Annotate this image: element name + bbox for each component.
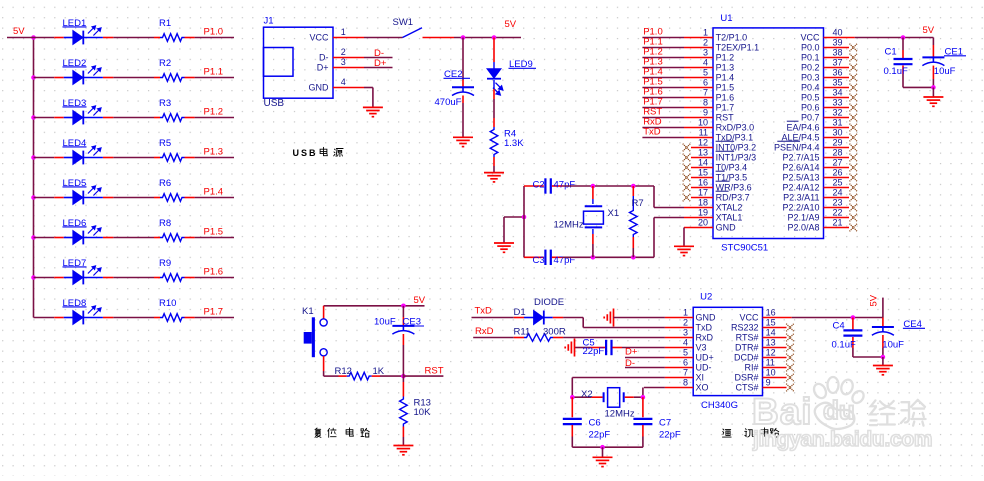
LED LED2 bbox=[54, 77, 64, 79]
no-connect U2 pin 11 bbox=[786, 364, 794, 372]
svg-text:P0.5: P0.5 bbox=[801, 93, 820, 103]
svg-text:4: 4 bbox=[703, 58, 708, 68]
svg-text:VCC: VCC bbox=[739, 313, 759, 323]
crystal X1 12MHz bbox=[592, 186, 594, 199]
wire crystal left rail bbox=[523, 186, 525, 257]
svg-text:Bai: Bai bbox=[752, 391, 813, 432]
wire R13 to ground bbox=[402, 437, 404, 445]
capacitor CE4 10uF bbox=[882, 318, 884, 327]
svg-text:32: 32 bbox=[833, 108, 843, 118]
wire ground to U2 pin1 bbox=[614, 317, 665, 319]
ground (crystal) bbox=[494, 243, 514, 252]
junction R7 top bbox=[631, 184, 636, 189]
svg-text:R10: R10 bbox=[159, 298, 176, 309]
junction crystal left rail bbox=[522, 215, 527, 220]
no-connect U1 pin 39 bbox=[850, 44, 858, 52]
svg-text:6: 6 bbox=[683, 358, 688, 368]
svg-text:5: 5 bbox=[683, 348, 688, 358]
wire 5V to CE2 bbox=[462, 38, 464, 81]
svg-text:P0.4: P0.4 bbox=[801, 83, 820, 93]
wire C5 to U2 V3 bbox=[622, 347, 665, 349]
svg-text:RD/P3.7: RD/P3.7 bbox=[716, 193, 750, 203]
svg-text:P1.3: P1.3 bbox=[204, 147, 224, 158]
wire R2 to P1.1 bbox=[195, 77, 234, 79]
svg-text:LED8: LED8 bbox=[63, 298, 87, 309]
wire 5V rail to LED8 bbox=[34, 317, 55, 319]
no-connect U1 pin 23 bbox=[850, 204, 858, 212]
wire net P1.4 to U1 pin 5 bbox=[642, 77, 684, 79]
svg-text:P0.1: P0.1 bbox=[801, 53, 820, 63]
label reset circuit bbox=[315, 428, 321, 438]
svg-text:X2: X2 bbox=[581, 389, 593, 400]
svg-text:5V: 5V bbox=[923, 25, 935, 36]
no-connect U2 pin 13 bbox=[786, 344, 794, 352]
svg-text:T2EX/P1.1: T2EX/P1.1 bbox=[716, 43, 760, 53]
svg-text:25: 25 bbox=[833, 178, 843, 188]
svg-text:28: 28 bbox=[833, 148, 843, 158]
no-connect U1 pin 32 bbox=[850, 114, 858, 122]
svg-text:D1: D1 bbox=[514, 307, 526, 318]
wire C2 to corner bbox=[563, 185, 655, 187]
LED LED4 bbox=[54, 157, 64, 159]
wire R9 to P1.6 bbox=[195, 277, 234, 279]
wire D1 to U2 TxD bbox=[563, 317, 583, 319]
svg-text:14: 14 bbox=[766, 328, 776, 338]
svg-text:XTAL2: XTAL2 bbox=[716, 203, 743, 213]
wire J1 pin4 to ground bbox=[364, 87, 373, 89]
capacitor C4 0.1uF bbox=[852, 318, 854, 330]
node D+ stub bbox=[364, 67, 393, 69]
svg-text:P0.3: P0.3 bbox=[801, 73, 820, 83]
junction C1 bbox=[901, 35, 906, 40]
wire LED8 to R10 bbox=[113, 317, 154, 319]
svg-text:17: 17 bbox=[698, 188, 708, 198]
svg-text:X1: X1 bbox=[608, 208, 620, 219]
svg-text:TxD: TxD bbox=[696, 323, 713, 333]
wire crystal ground drop bbox=[503, 217, 505, 243]
svg-text:39: 39 bbox=[833, 38, 843, 48]
wire LED9 to R4 bbox=[493, 99, 495, 118]
svg-text:4: 4 bbox=[341, 77, 346, 87]
svg-text:VCC: VCC bbox=[800, 33, 820, 43]
svg-text:16: 16 bbox=[698, 178, 708, 188]
wire crystal bottom rail bbox=[524, 256, 544, 258]
svg-text:12: 12 bbox=[698, 138, 708, 148]
svg-text:P2.2/A10: P2.2/A10 bbox=[782, 203, 819, 213]
svg-text:DIODE: DIODE bbox=[534, 297, 564, 308]
svg-text:37: 37 bbox=[833, 58, 843, 68]
svg-text:24: 24 bbox=[833, 188, 843, 198]
junction CE3 top bbox=[401, 304, 406, 309]
svg-text:RTS#: RTS# bbox=[736, 333, 759, 343]
wire net P1.3 to U1 pin 4 bbox=[642, 67, 684, 69]
wire LED3 to R3 bbox=[113, 117, 154, 119]
wire U2 XO to crystal bbox=[644, 387, 665, 389]
svg-text:P1.4: P1.4 bbox=[716, 73, 735, 83]
svg-text:C2: C2 bbox=[533, 180, 545, 191]
svg-text:13: 13 bbox=[698, 148, 708, 158]
svg-text:LED6: LED6 bbox=[63, 218, 87, 229]
svg-text:RxD: RxD bbox=[696, 333, 714, 343]
svg-text:jingyan.baidu.com: jingyan.baidu.com bbox=[752, 428, 932, 451]
LED LED5 bbox=[54, 197, 64, 199]
capacitor C7 22pF bbox=[642, 397, 644, 417]
svg-text:2: 2 bbox=[703, 38, 708, 48]
svg-text:EA/P4.6: EA/P4.6 bbox=[786, 123, 819, 133]
LED LED8 bbox=[54, 317, 64, 319]
svg-text:RxD/P3.0: RxD/P3.0 bbox=[716, 123, 755, 133]
LED LED3 bbox=[54, 117, 64, 119]
svg-text:CH340G: CH340G bbox=[701, 400, 738, 411]
svg-text:R2: R2 bbox=[159, 58, 171, 69]
svg-text:C6: C6 bbox=[589, 417, 601, 428]
no-connect U1 pin 35 bbox=[850, 84, 858, 92]
wire LED5 to R6 bbox=[113, 197, 154, 199]
svg-text:DTR#: DTR# bbox=[735, 343, 759, 353]
svg-text:1: 1 bbox=[703, 28, 708, 38]
ground (R4) bbox=[484, 173, 504, 182]
svg-text:33: 33 bbox=[833, 98, 843, 108]
wire 5V rail to LED2 bbox=[34, 77, 55, 79]
svg-text:35: 35 bbox=[833, 78, 843, 88]
svg-text:P2.5/A13: P2.5/A13 bbox=[782, 173, 819, 183]
svg-text:R11: R11 bbox=[514, 327, 531, 338]
node D- stub bbox=[364, 57, 393, 59]
no-connect U1 pin 31 bbox=[850, 124, 858, 132]
svg-text:12MHz: 12MHz bbox=[605, 408, 635, 419]
svg-text:3: 3 bbox=[341, 57, 346, 67]
capacitor C5 22pF bbox=[575, 347, 591, 349]
svg-text:D+: D+ bbox=[317, 63, 329, 73]
junction X2 left bbox=[570, 395, 575, 400]
svg-text:RS232: RS232 bbox=[731, 323, 759, 333]
wire 5V (reset) bbox=[324, 305, 425, 307]
svg-text:14: 14 bbox=[698, 158, 708, 168]
connector J1 (USB) bbox=[264, 27, 334, 98]
svg-text:RxD: RxD bbox=[475, 326, 494, 337]
wire R12 to RST node bbox=[380, 375, 403, 377]
svg-text:38: 38 bbox=[833, 48, 843, 58]
node D- stub (U2) bbox=[625, 367, 665, 369]
svg-text:16: 16 bbox=[766, 308, 776, 318]
junction on 5V rail bbox=[31, 115, 36, 120]
wire 5V rail to LED5 bbox=[34, 197, 55, 199]
svg-text:4: 4 bbox=[683, 338, 688, 348]
no-connect U2 pin 12 bbox=[786, 354, 794, 362]
svg-text:DSR#: DSR# bbox=[734, 373, 758, 383]
svg-text:D-: D- bbox=[625, 358, 635, 369]
junction ground (C1/CE1) bbox=[931, 85, 936, 90]
svg-text:3: 3 bbox=[683, 328, 688, 338]
junction CE2 branch bbox=[461, 35, 466, 40]
wire 5V rail to LED3 bbox=[34, 117, 55, 119]
no-connect U1 pin 30 bbox=[850, 134, 858, 142]
wire 5V riser bbox=[882, 298, 884, 318]
wire C3 to corner bbox=[563, 256, 655, 258]
svg-text:5V: 5V bbox=[13, 26, 25, 37]
svg-text:LED3: LED3 bbox=[63, 98, 87, 109]
svg-text:P0.2: P0.2 bbox=[801, 63, 820, 73]
svg-text:23: 23 bbox=[833, 198, 843, 208]
wire C6 to C7 bottom bbox=[572, 446, 643, 448]
watermark Baidu Jingyan bbox=[752, 377, 932, 451]
svg-text:9: 9 bbox=[766, 378, 771, 388]
svg-text:RST: RST bbox=[425, 366, 444, 377]
crystal X2 12MHz bbox=[572, 396, 591, 398]
LED LED7 bbox=[54, 277, 64, 279]
svg-text:USB: USB bbox=[264, 98, 285, 109]
no-connect U1 pin 26 bbox=[850, 174, 858, 182]
no-connect U1 pin 27 bbox=[850, 164, 858, 172]
svg-text:0.1uF: 0.1uF bbox=[832, 340, 856, 351]
svg-text:470uF: 470uF bbox=[435, 97, 462, 108]
resistor R5 bbox=[154, 157, 160, 159]
wire net P1.2 to U1 pin 3 bbox=[642, 57, 684, 59]
no-connect U1 pin 24 bbox=[850, 194, 858, 202]
svg-text:P2.7/A15: P2.7/A15 bbox=[782, 153, 819, 163]
resistor R2 bbox=[154, 77, 160, 79]
svg-text:R7: R7 bbox=[632, 198, 644, 209]
wire R10 to P1.7 bbox=[195, 317, 234, 319]
wire R1 to P1.0 bbox=[195, 37, 234, 39]
wire VCC to 5V bbox=[855, 37, 934, 39]
svg-text:R5: R5 bbox=[159, 138, 171, 149]
svg-text:B: B bbox=[309, 148, 316, 158]
svg-text:13: 13 bbox=[766, 338, 776, 348]
svg-text:1.3K: 1.3K bbox=[504, 138, 524, 149]
ground (C5, rotated) bbox=[565, 339, 574, 357]
wire 5V to LED9 bbox=[493, 38, 495, 63]
svg-text:R3: R3 bbox=[159, 98, 171, 109]
svg-text:10uF: 10uF bbox=[934, 66, 956, 77]
wire crystal top rail bbox=[524, 185, 544, 187]
svg-text:LED5: LED5 bbox=[63, 178, 87, 189]
svg-text:GND: GND bbox=[309, 83, 330, 93]
svg-text:2: 2 bbox=[341, 47, 346, 57]
svg-text:10: 10 bbox=[766, 368, 776, 378]
svg-text:LED1: LED1 bbox=[63, 18, 87, 29]
wire U2 XI to crystal bbox=[572, 377, 665, 379]
svg-text:R8: R8 bbox=[159, 218, 171, 229]
svg-text:C3: C3 bbox=[533, 255, 545, 266]
svg-text:P1.6: P1.6 bbox=[716, 93, 735, 103]
resistor R11 300R bbox=[514, 337, 524, 339]
svg-text:P1.5: P1.5 bbox=[716, 83, 735, 93]
no-connect U1 pin 34 bbox=[850, 94, 858, 102]
resistor R8 bbox=[154, 237, 160, 239]
wire LED6 to R8 bbox=[113, 237, 154, 239]
svg-text:P1.0: P1.0 bbox=[204, 27, 224, 38]
resistor R12 1K bbox=[339, 375, 347, 377]
svg-text:UD+: UD+ bbox=[696, 353, 714, 363]
svg-text:15: 15 bbox=[766, 318, 776, 328]
svg-text:P1.3: P1.3 bbox=[716, 63, 735, 73]
svg-text:LED4: LED4 bbox=[63, 138, 87, 149]
wire 5V rail vertical bbox=[33, 38, 35, 318]
svg-text:P2.6/A14: P2.6/A14 bbox=[782, 163, 819, 173]
wire R11 to U2 RxD bbox=[563, 337, 665, 339]
wire R5 to P1.3 bbox=[195, 157, 234, 159]
svg-text:P0.6: P0.6 bbox=[801, 103, 820, 113]
wire 5V rail to LED4 bbox=[34, 157, 55, 159]
capacitor CE3 10uF bbox=[402, 306, 404, 317]
resistor R10 bbox=[154, 317, 160, 319]
svg-text:LED2: LED2 bbox=[63, 58, 87, 69]
svg-text:XI: XI bbox=[696, 373, 705, 383]
wire RST stub bbox=[403, 375, 443, 377]
svg-text:R12: R12 bbox=[335, 366, 352, 377]
svg-text:P2.3/A11: P2.3/A11 bbox=[783, 193, 819, 203]
svg-text:12: 12 bbox=[766, 348, 776, 358]
svg-text:DCD#: DCD# bbox=[734, 353, 759, 363]
junction on 5V rail bbox=[31, 35, 36, 40]
svg-text:P1.4: P1.4 bbox=[204, 187, 224, 198]
svg-text:VCC: VCC bbox=[309, 33, 329, 43]
wire 5V rail to LED1 bbox=[7, 37, 54, 39]
svg-text:10: 10 bbox=[698, 118, 708, 128]
svg-text:5V: 5V bbox=[505, 19, 517, 30]
no-connect U1 pin 28 bbox=[850, 154, 858, 162]
wire net TxD to U1 pin 11 bbox=[642, 137, 684, 139]
wire LED7 to R9 bbox=[113, 277, 154, 279]
svg-text:22pF: 22pF bbox=[659, 430, 681, 441]
svg-text:P2.4/A12: P2.4/A12 bbox=[782, 183, 819, 193]
svg-text:TxD: TxD bbox=[475, 305, 493, 316]
svg-text:P1.5: P1.5 bbox=[204, 227, 224, 238]
wire ground stub (crystal) bbox=[504, 216, 524, 218]
junction X2 right bbox=[641, 395, 646, 400]
LED LED9 bbox=[487, 69, 503, 95]
svg-text:LED7: LED7 bbox=[63, 258, 87, 269]
no-connect U1 pin 15 bbox=[683, 174, 691, 182]
svg-text:20: 20 bbox=[698, 218, 708, 228]
no-connect U2 pin 14 bbox=[786, 334, 794, 342]
junction ground (X2) bbox=[600, 445, 605, 450]
wire U1 GND pin20 to ground bbox=[683, 228, 685, 247]
wire R3 to P1.2 bbox=[195, 117, 234, 119]
svg-text:11: 11 bbox=[699, 128, 708, 138]
no-connect U1 pin 12 bbox=[683, 144, 691, 152]
resistor R6 bbox=[154, 197, 160, 199]
resistor R13 10K bbox=[402, 376, 404, 382]
no-connect U1 pin 36 bbox=[850, 74, 858, 82]
svg-text:19: 19 bbox=[698, 208, 708, 218]
svg-text:29: 29 bbox=[833, 138, 843, 148]
svg-text:GND: GND bbox=[696, 313, 717, 323]
svg-text:31: 31 bbox=[833, 118, 843, 128]
svg-text:P0.0: P0.0 bbox=[801, 43, 820, 53]
wire net P1.1 to U1 pin 2 bbox=[642, 47, 684, 49]
svg-text:TxD: TxD bbox=[643, 127, 661, 138]
svg-text:SW1: SW1 bbox=[393, 17, 414, 28]
wire TxD to D1 bbox=[472, 317, 514, 319]
wire to ground bbox=[932, 87, 934, 96]
wire net RST to U1 pin 9 bbox=[642, 117, 684, 119]
svg-text:P2.1/A9: P2.1/A9 bbox=[787, 213, 819, 223]
no-connect U1 pin 16 bbox=[683, 184, 691, 192]
svg-text:du: du bbox=[823, 395, 855, 425]
svg-text:7: 7 bbox=[703, 88, 708, 98]
svg-text:12MHz: 12MHz bbox=[554, 220, 584, 231]
svg-text:21: 21 bbox=[833, 218, 843, 228]
svg-text:P1.2: P1.2 bbox=[716, 53, 735, 63]
svg-text:40: 40 bbox=[833, 28, 843, 38]
svg-text:18: 18 bbox=[698, 198, 708, 208]
label communication circuit bbox=[723, 429, 732, 437]
svg-text:R9: R9 bbox=[159, 258, 171, 269]
no-connect U1 pin 38 bbox=[850, 54, 858, 62]
svg-text:S: S bbox=[301, 148, 307, 158]
svg-text:22pF: 22pF bbox=[589, 430, 611, 441]
svg-text:R6: R6 bbox=[159, 178, 171, 189]
no-connect U1 pin 33 bbox=[850, 104, 858, 112]
node D+ stub (U2) bbox=[625, 357, 665, 359]
wire 5V rail to LED6 bbox=[34, 237, 55, 239]
svg-text:8: 8 bbox=[683, 378, 688, 388]
svg-text:5V: 5V bbox=[414, 295, 426, 306]
svg-text:P1.2: P1.2 bbox=[204, 107, 224, 118]
svg-text:GND: GND bbox=[716, 223, 737, 233]
junction ground (C4/CE4) bbox=[881, 355, 886, 360]
junction X1 bottom bbox=[591, 255, 596, 260]
resistor R3 bbox=[154, 117, 160, 119]
wire R6 to P1.4 bbox=[195, 197, 234, 199]
ground (C1/CE1) bbox=[923, 97, 943, 106]
svg-text:6: 6 bbox=[703, 78, 708, 88]
svg-text:10K: 10K bbox=[414, 407, 432, 418]
wire R4 to ground bbox=[493, 166, 495, 172]
svg-text:22pF: 22pF bbox=[583, 346, 605, 357]
capacitor C2 47pF bbox=[545, 178, 550, 193]
svg-text:P1.6: P1.6 bbox=[204, 267, 224, 278]
svg-text:15: 15 bbox=[698, 168, 708, 178]
resistor R7 bbox=[632, 186, 634, 196]
junction on 5V rail bbox=[31, 195, 36, 200]
no-connect U1 pin 17 bbox=[683, 194, 691, 202]
svg-text:36: 36 bbox=[833, 68, 843, 78]
resistor R1 bbox=[154, 37, 160, 39]
svg-text:5: 5 bbox=[703, 68, 708, 78]
svg-text:D-: D- bbox=[319, 53, 329, 63]
no-connect U2 pin 15 bbox=[786, 324, 794, 332]
no-connect U1 pin 14 bbox=[683, 164, 691, 172]
svg-text:P1.7: P1.7 bbox=[204, 307, 224, 318]
svg-text:300R: 300R bbox=[543, 327, 566, 338]
junction X1 top bbox=[591, 184, 596, 189]
svg-text:J1: J1 bbox=[264, 16, 274, 27]
no-connect U2 pin 9 bbox=[786, 384, 794, 392]
resistor R4 1.3K bbox=[493, 118, 495, 127]
wire XTAL2 connection bbox=[653, 186, 655, 208]
svg-text:9: 9 bbox=[703, 108, 708, 118]
wire K1 to R12 bbox=[323, 371, 325, 376]
svg-text:30: 30 bbox=[833, 128, 843, 138]
wire C4 to CE4 bottom bbox=[853, 356, 883, 358]
wire RxD to R11 bbox=[473, 337, 514, 339]
no-connect U1 pin 13 bbox=[683, 154, 691, 162]
svg-text:10uF: 10uF bbox=[882, 340, 904, 351]
svg-text:T2/P1.0: T2/P1.0 bbox=[716, 33, 748, 43]
svg-text:11: 11 bbox=[766, 358, 775, 368]
wire SW1 to 5V node bbox=[423, 37, 455, 39]
ground (U2 GND, rotated) bbox=[604, 309, 613, 327]
junction on 5V rail bbox=[31, 235, 36, 240]
wire to ground (C4/CE4) bbox=[882, 357, 884, 365]
IC U2 CH340G bbox=[693, 307, 762, 395]
svg-text:3: 3 bbox=[703, 48, 708, 58]
wire net P1.0 to U1 pin 1 bbox=[642, 37, 684, 39]
wire LED1 to R1 bbox=[113, 37, 154, 39]
